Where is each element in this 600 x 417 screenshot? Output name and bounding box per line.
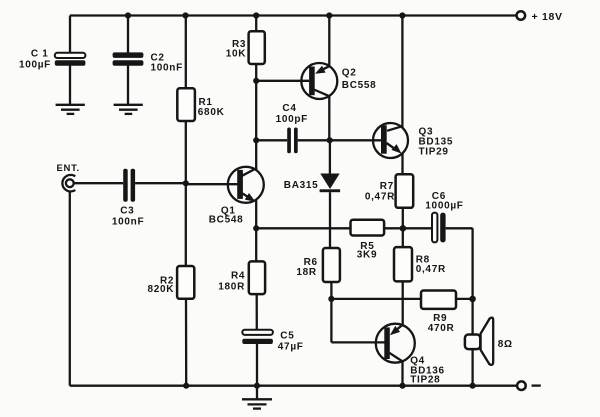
resistor R4: [218, 261, 265, 294]
diode BA315: [284, 140, 340, 248]
resistor R7: [365, 174, 413, 208]
terminal +18V: [517, 11, 526, 20]
wire Q3 collector to rail: [401, 16, 403, 128]
node output R7/R5/C6/R8: [400, 225, 407, 232]
node top rail R3: [253, 12, 259, 18]
resistor R1: [177, 88, 224, 121]
wire feedback line Q1 emitter to R5: [256, 227, 350, 229]
svg-text:180R: 180R: [218, 282, 245, 293]
capacitor C3: [112, 169, 144, 228]
svg-text:47µF: 47µF: [278, 341, 304, 352]
terminal negative output: [517, 381, 526, 390]
node C5 bottom rail: [254, 383, 260, 389]
svg-text:TIP28: TIP28: [410, 374, 440, 385]
wire C6 down to speaker line: [471, 228, 473, 334]
node C4 right / diode anode: [327, 137, 333, 143]
svg-text:C4: C4: [282, 103, 296, 114]
wire R5 to output node: [384, 227, 403, 229]
wire R4 to C5: [256, 294, 258, 330]
wire R2 to bottom rail: [185, 299, 187, 386]
capacitor C2: [113, 52, 183, 104]
svg-text:R4: R4: [231, 271, 245, 282]
wire C3 to node: [135, 182, 186, 184]
transistor Q2: [301, 63, 376, 99]
svg-text:+ 18V: + 18V: [532, 11, 563, 23]
wire R1 to input node: [185, 121, 187, 266]
svg-text:BA315: BA315: [284, 180, 319, 191]
wire Q2 base: [256, 80, 309, 82]
wire Q1 emitter down: [255, 199, 257, 261]
svg-text:1000µF: 1000µF: [425, 200, 463, 211]
capacitor C5: [242, 330, 303, 386]
svg-text:8Ω: 8Ω: [498, 339, 513, 350]
svg-text:18R: 18R: [296, 267, 317, 278]
wire Q3 emitter to R7: [401, 153, 403, 174]
svg-text:C3: C3: [120, 206, 134, 217]
wire R3 branch from rail: [255, 16, 257, 32]
svg-text:100µF: 100µF: [19, 59, 51, 70]
svg-text:C 1: C 1: [31, 49, 49, 60]
wire R8 bottom to Q4 emitter: [402, 281, 404, 325]
node C4 left: [253, 137, 259, 143]
node top rail Q2: [326, 12, 332, 18]
resistor R8: [394, 247, 446, 281]
svg-text:100nF: 100nF: [151, 63, 183, 74]
input jack ENT.: [57, 163, 80, 192]
svg-text:100nF: 100nF: [112, 217, 144, 228]
resistor R6: [296, 248, 340, 282]
node input junction: [183, 180, 189, 186]
wire Q1 base: [186, 183, 238, 185]
node speaker bottom rail: [470, 383, 476, 389]
resistor R5: [351, 220, 385, 261]
capacitor C1: [19, 49, 85, 105]
wire C2 branch from rail: [127, 16, 129, 54]
wire R9 line from Q4 base node to speaker line: [331, 298, 421, 300]
capacitor C4: [256, 103, 330, 153]
svg-text:BC548: BC548: [209, 214, 244, 225]
ground below bottom rail: [242, 386, 272, 409]
resistor R2: [147, 266, 194, 299]
transistor Q3: [373, 123, 453, 158]
ground below C1: [56, 105, 85, 114]
svg-text:100pF: 100pF: [276, 114, 308, 125]
svg-text:470R: 470R: [428, 323, 455, 334]
svg-text:820K: 820K: [147, 284, 174, 295]
node R6 bottom / R9 line / Q4 base: [328, 296, 334, 302]
svg-text:BC558: BC558: [342, 80, 377, 91]
svg-text:ENT.: ENT.: [57, 163, 80, 174]
wire R3 bottom down to Q1 collector: [255, 64, 257, 170]
wire Q2 emitter to rail: [328, 16, 330, 67]
node Q4 collector bottom rail: [399, 383, 405, 389]
node top rail C2: [125, 12, 131, 18]
wire input jack to C3: [74, 182, 123, 184]
node R2 bottom rail: [183, 383, 189, 389]
node R9 right / speaker top: [469, 296, 476, 303]
speaker: [465, 318, 513, 386]
wire Q4 collector to bottom rail: [401, 361, 403, 385]
svg-text:Q2: Q2: [342, 68, 357, 79]
node Q1 emitter / R4 / feedback: [253, 225, 259, 231]
wire R7 to output node: [402, 208, 404, 247]
transistor Q4: [376, 324, 445, 386]
capacitor C6: [403, 191, 473, 242]
ground below C2: [114, 105, 143, 114]
node top rail Q3: [399, 12, 405, 18]
resistor R3: [226, 31, 265, 64]
node top rail R1: [182, 12, 188, 18]
svg-text:0,47R: 0,47R: [416, 264, 446, 275]
node R3 / Q2 base: [253, 78, 259, 84]
wire C1 branch from rail: [69, 16, 71, 54]
wire Q2 collector down to C4 node: [328, 96, 330, 140]
wire bottom rail: [70, 385, 517, 387]
svg-text:10K: 10K: [226, 49, 247, 60]
resistor R9: [421, 291, 473, 334]
svg-text:3K9: 3K9: [357, 250, 377, 261]
svg-text:R7: R7: [380, 181, 394, 192]
wire Q3 base from diode node: [330, 139, 382, 141]
svg-text:0,47R: 0,47R: [365, 192, 395, 203]
wire Q4 base: [331, 341, 384, 343]
svg-text:680K: 680K: [198, 107, 225, 118]
wire top supply rail: [70, 14, 516, 16]
svg-text:TIP29: TIP29: [419, 147, 449, 158]
wire R6 bottom to Q4 base node: [330, 282, 332, 342]
svg-text:C5: C5: [280, 330, 294, 341]
wire input jack down to bottom rail: [69, 191, 71, 386]
wire R1 branch from rail: [185, 16, 187, 89]
transistor Q1: [209, 167, 264, 226]
